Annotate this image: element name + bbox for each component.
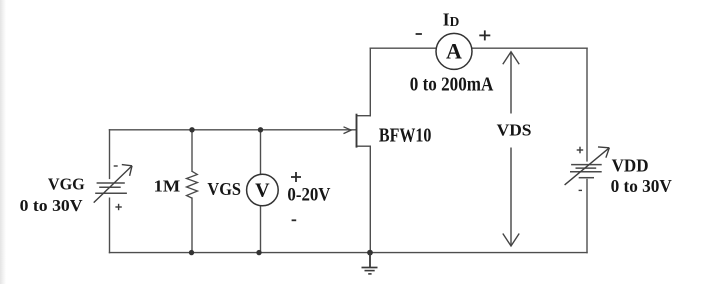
svg-text:A: A — [446, 39, 462, 64]
svg-text:V: V — [255, 180, 270, 202]
svg-text:0 to 30V: 0 to 30V — [20, 196, 84, 215]
svg-text:VGS: VGS — [207, 179, 241, 199]
svg-text:VDD: VDD — [612, 156, 649, 176]
svg-text:0-20V: 0-20V — [287, 185, 331, 206]
svg-text:VGG: VGG — [48, 175, 85, 194]
svg-text:VDS: VDS — [497, 121, 532, 140]
svg-text:1M: 1M — [154, 176, 181, 195]
svg-text:0 to 200mA: 0 to 200mA — [410, 73, 494, 95]
svg-text:BFW10: BFW10 — [379, 125, 432, 146]
svg-text:0 to 30V: 0 to 30V — [611, 176, 672, 196]
